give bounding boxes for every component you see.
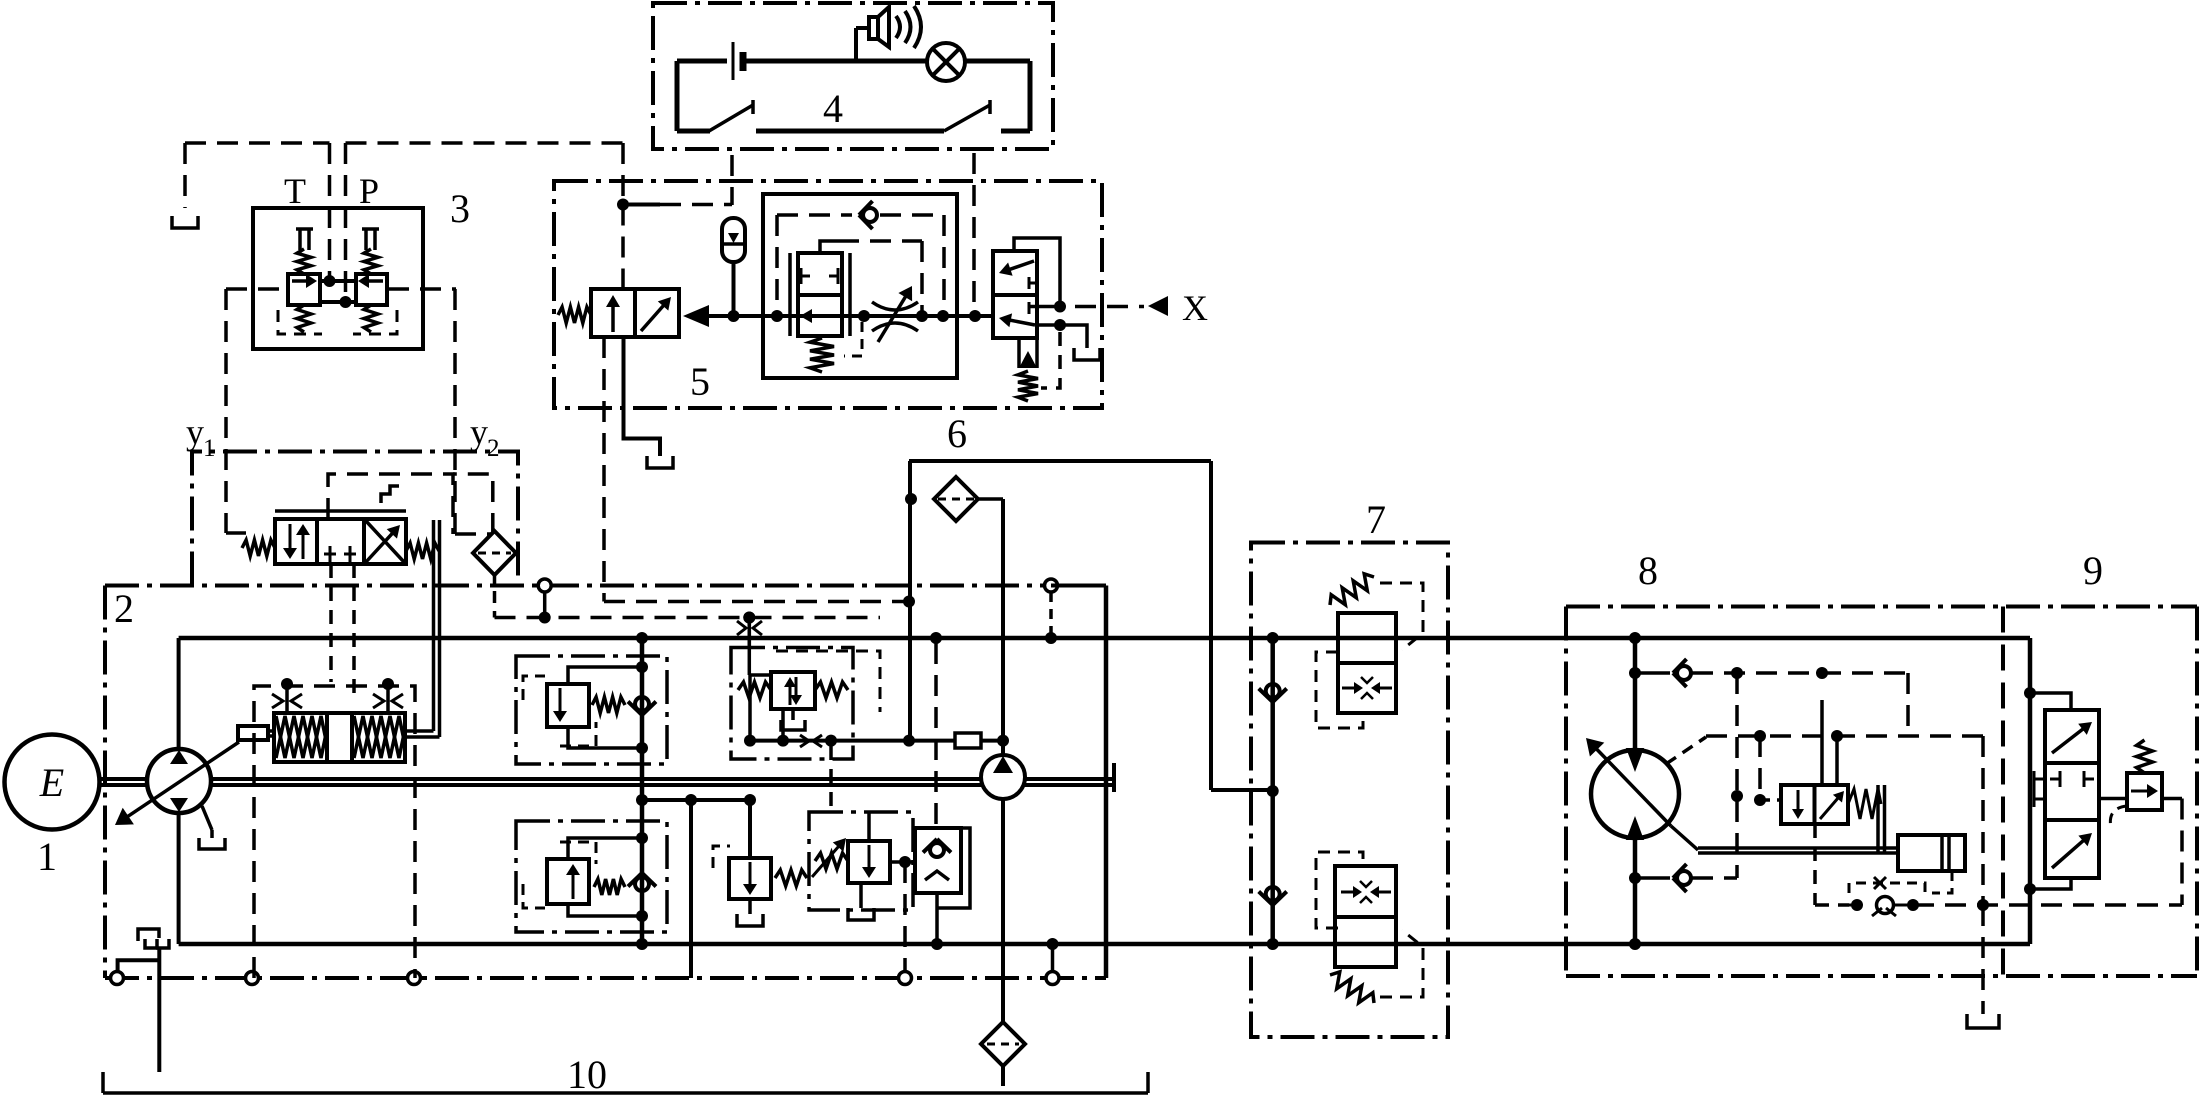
servo valve SV1 arrow L — [1797, 790, 1800, 811]
node n2 — [2024, 883, 2036, 895]
port circle p2 — [246, 972, 259, 985]
variable throttle 5d — [872, 302, 918, 310]
node n1 — [2024, 687, 2036, 699]
pump P1 variable arrow — [127, 742, 239, 817]
box 2 bottom border — [105, 976, 1106, 980]
lower pilot dashed line — [495, 616, 881, 620]
tank T1 — [172, 216, 198, 228]
pilot valve V1 spring R — [406, 543, 439, 559]
pilot lines from V1 down — [329, 564, 333, 682]
control valve V2 springs L — [276, 716, 326, 758]
control valve V2 piston — [238, 726, 268, 740]
check valve 5c — [863, 208, 877, 222]
P line — [344, 143, 348, 298]
node r5 — [636, 794, 648, 806]
pilot dashed drop9 — [2180, 799, 2184, 906]
battery B1 — [732, 42, 735, 80]
valve V9 body — [2045, 710, 2099, 878]
box 5 enclosure (dash-dot) — [554, 181, 1102, 408]
tank T5 — [647, 456, 673, 468]
svg-text:X: X — [1182, 288, 1208, 328]
node a4 — [916, 310, 928, 322]
node P — [340, 296, 352, 308]
servo valve SV1 arrow R — [1820, 797, 1839, 819]
drop x691 — [689, 800, 693, 978]
counterbalance CB1 dashed hook — [1316, 652, 1363, 728]
reducing valve 3R body — [356, 274, 387, 305]
dashed pilot rect 5 — [777, 213, 852, 217]
relief module RM1 enclosure — [516, 656, 667, 764]
tank drop — [1981, 905, 1985, 1014]
pilot dashed right — [1913, 903, 2182, 907]
y-rect top — [226, 287, 287, 291]
solenoid valve 5a spring — [558, 307, 591, 323]
valve V9 out — [2099, 797, 2127, 801]
port circle p4 — [899, 972, 912, 985]
port stub2 — [1049, 592, 1053, 633]
box 6 left line — [908, 461, 912, 741]
border solid piece — [1051, 584, 1106, 588]
svg-text:6: 6 — [947, 411, 967, 456]
check module link — [935, 893, 939, 944]
solenoid valve 5a arrow L — [611, 305, 615, 332]
reducing valve 3R pilot dashes — [353, 310, 397, 334]
box 6 right line — [1209, 461, 1213, 790]
pump P1 case drain — [202, 806, 212, 830]
trunk 9 — [2028, 638, 2033, 944]
relief valve RV3 spring — [775, 870, 807, 886]
svg-text:y: y — [470, 412, 488, 452]
RM2 top link — [568, 838, 642, 859]
check valve CV4 — [1266, 684, 1280, 698]
compensator drain — [791, 709, 795, 720]
pump P2 suction — [1001, 799, 1005, 1022]
pilot dashed vert1 — [1735, 673, 1739, 878]
node j1 — [617, 199, 629, 211]
compensator down link — [781, 709, 785, 741]
pilot valve V1 drain z — [381, 486, 399, 503]
node x1 — [1054, 301, 1066, 313]
node b3 — [1267, 938, 1279, 950]
svg-text:4: 4 — [823, 86, 843, 131]
accumulator stem — [732, 262, 736, 316]
link line y800 — [642, 798, 750, 802]
valve 5e pilot tri — [1017, 338, 1021, 368]
switch S2 — [944, 105, 990, 131]
tank T5e — [1074, 348, 1100, 360]
dashed net T branch — [185, 141, 330, 145]
node m1 — [1629, 632, 1641, 644]
compensator link in — [749, 673, 771, 677]
valve V9 arrow top — [2052, 728, 2084, 753]
drain of valve 5a to tank — [624, 337, 661, 456]
reducing valve 3R spring top — [364, 249, 378, 274]
throttle-check cluster — [1849, 883, 1925, 893]
node m7 — [1731, 790, 1743, 802]
node m2 — [1629, 667, 1641, 679]
node r3 — [636, 832, 648, 844]
y2 line — [453, 289, 457, 534]
compensator feed — [748, 618, 752, 648]
feedback lines — [432, 520, 436, 731]
pump P2 — [981, 755, 1025, 799]
solenoid valve 5a arrow R — [641, 305, 664, 332]
motor E circle — [5, 735, 100, 830]
relief valve RM1 arrow — [559, 688, 562, 713]
compensator spring R — [815, 682, 848, 698]
node u1 — [903, 596, 915, 608]
pilot valve V1 cap line — [275, 509, 406, 513]
pilot dashed bottom — [1692, 876, 1737, 880]
node T — [324, 275, 336, 287]
check valve CV2 — [635, 877, 649, 891]
horn/speaker H1 — [854, 28, 858, 61]
node m9 — [1831, 730, 1843, 742]
valve 5e arrow bottom — [1009, 320, 1035, 325]
pump P1 — [147, 749, 211, 813]
filter F3 — [981, 1022, 1025, 1066]
pilot drop to solenoid valve — [621, 205, 625, 290]
port circle p5 — [1046, 972, 1059, 985]
node r6 — [636, 938, 648, 950]
reducing valve 3R arrow — [367, 279, 383, 283]
node a2 — [771, 310, 783, 322]
node a3 — [858, 310, 870, 322]
node r1 — [636, 661, 648, 673]
counterbalance CB1 dashed box — [1380, 583, 1423, 650]
reducing valve 3L arrow — [292, 279, 308, 283]
svg-text:y: y — [186, 412, 204, 452]
pilot valve V1 body — [275, 519, 406, 564]
pilot drop1 — [1758, 736, 1762, 800]
relief valve RV3 body — [729, 858, 771, 899]
box8-9 divider — [2001, 607, 2005, 977]
feedback bar — [1876, 785, 1880, 852]
pilot dashed top — [1692, 671, 1908, 675]
T line — [328, 143, 332, 277]
pilot drop to valve 3a — [621, 143, 625, 203]
variable relief RV4 spring — [815, 853, 848, 869]
port circle p7 — [1045, 579, 1058, 592]
servo valve SV1 body — [1781, 785, 1848, 824]
pilot dashed mid — [1706, 734, 1983, 738]
node o1 — [997, 735, 1009, 747]
dashed net T left drop — [183, 143, 187, 208]
relief valve RM2 spring — [594, 879, 625, 895]
variable relief RV4 enclosure — [809, 812, 913, 910]
relief module RM2 enclosure — [516, 821, 667, 932]
pilot line from box4 right port — [972, 153, 976, 316]
pressure reducing valve 5b body — [798, 253, 842, 336]
pilot actuator right — [382, 678, 394, 690]
valve 5e drain — [1054, 319, 1066, 331]
filter F2 — [473, 531, 516, 575]
valve 5b spring — [810, 338, 834, 372]
relief RV9 dashes — [2110, 806, 2127, 828]
pilot link bottom — [2030, 878, 2071, 889]
svg-text:3: 3 — [450, 186, 470, 231]
compensator dashed box — [776, 651, 880, 712]
motor trunk — [1633, 638, 1638, 944]
node u3 — [743, 612, 755, 624]
check valve CV5 — [1266, 887, 1280, 901]
svg-text:2: 2 — [487, 435, 500, 462]
node m8 — [1754, 730, 1766, 742]
node v3 — [930, 632, 942, 644]
svg-text:1: 1 — [37, 834, 57, 879]
check valve CV6 — [1635, 671, 1670, 675]
variable relief RV4 stub — [867, 812, 871, 841]
variable relief RV4 body — [848, 841, 890, 883]
valve V9 mid marks — [2034, 778, 2045, 781]
RV3 feed — [748, 800, 752, 858]
wire bottom right — [1001, 129, 1030, 134]
node a1 — [728, 310, 740, 322]
relief valve RV3 arrow — [749, 862, 752, 886]
box 8 enclosure bottom — [1566, 974, 2197, 978]
counterbalance CB2 spring — [1330, 972, 1374, 1003]
wire bottom left — [677, 129, 710, 134]
variable relief RV4 link — [890, 860, 915, 864]
box 8 enclosure top — [1566, 605, 2197, 609]
box 4 enclosure (dash-dot) — [653, 3, 1053, 149]
node b1 — [1267, 632, 1279, 644]
check valve CV7 — [1635, 876, 1670, 880]
pilot valve V1 spring L — [242, 540, 275, 556]
compensator arrows — [789, 685, 792, 705]
valve 5e arrow top — [1009, 261, 1035, 270]
node c4 — [903, 735, 915, 747]
servo valve SV1 spring — [1848, 789, 1881, 819]
pilot link to box4 — [623, 203, 660, 207]
valve 5e body — [993, 251, 1037, 338]
wire vertical right — [1028, 61, 1033, 131]
node v2 — [931, 938, 943, 950]
box 8 enclosure left — [1564, 607, 1568, 977]
node c3 — [825, 735, 837, 747]
variable relief RV4 arrow — [868, 845, 871, 869]
valve V9 arrow bottom — [2052, 840, 2085, 868]
drive shaft — [99, 777, 1114, 781]
port drop dashed — [903, 862, 907, 971]
tank Z2 — [138, 929, 159, 941]
reducing valve 3L spring bottom — [297, 305, 311, 332]
relief valve RM2 dashes — [523, 884, 545, 908]
node m6 — [1816, 667, 1828, 679]
node r2 — [636, 742, 648, 754]
motor M1 variable arrow — [1596, 748, 1671, 826]
control valve V2 springs R — [354, 716, 404, 758]
port circle p6 — [538, 579, 551, 592]
servo cylinder — [1898, 835, 1965, 871]
svg-text:T: T — [284, 171, 306, 211]
wire vertical left — [675, 61, 680, 131]
node c1 — [744, 735, 756, 747]
throttle stem — [743, 612, 755, 624]
pilot link top — [2030, 693, 2071, 710]
control valve V2 body — [274, 713, 405, 762]
servo rod — [1698, 846, 1898, 850]
node a6 — [969, 310, 981, 322]
pilot actuator left — [281, 678, 293, 690]
tank T8 — [1967, 1014, 1999, 1028]
wire top left — [677, 59, 727, 64]
counterbalance CB2 throttle — [1341, 891, 1355, 894]
suction port link — [1047, 938, 1059, 950]
box 2 right border — [1104, 586, 1109, 979]
wire bottom middle — [756, 129, 944, 134]
wire lamp to right — [965, 59, 1030, 64]
svg-text:8: 8 — [1638, 548, 1658, 593]
bar between valves bottom — [320, 300, 356, 304]
relief RV9 body — [2127, 773, 2162, 810]
valve 5e pilot dashes — [1041, 332, 1060, 388]
pilot valve V1 arrows — [289, 524, 292, 550]
node b2 — [1267, 785, 1279, 797]
main pilot line 5 — [709, 314, 992, 318]
bottom bus line — [179, 942, 2030, 947]
node u2 — [539, 612, 551, 624]
node r4 — [636, 910, 648, 922]
relief valve RM1 spring — [592, 697, 625, 713]
box 7 enclosure — [1251, 543, 1448, 1038]
wire battery to speaker — [743, 59, 856, 64]
inner left edge — [177, 638, 181, 944]
dashed net P branch — [346, 141, 624, 145]
reducing valve 3R spring bottom — [364, 305, 378, 332]
wire speaker to lamp — [856, 59, 927, 64]
accumulator A1 — [722, 218, 745, 262]
y2 corner — [455, 532, 493, 536]
bracket 10 — [103, 1091, 1148, 1095]
relief RV9 arrow — [2131, 790, 2149, 793]
reducing valve 3L body — [288, 274, 320, 305]
pilot valve V1 mid marks — [329, 546, 332, 562]
swash link — [1666, 737, 1706, 764]
solenoid valve 5a body — [591, 289, 679, 337]
compensator throttle — [800, 735, 809, 747]
pilot valve V1 X — [366, 521, 404, 562]
relief valve RM1 body — [547, 684, 589, 727]
X pilot line — [1043, 305, 1144, 309]
RM1 top link — [568, 667, 642, 694]
check module CM2 outline — [915, 828, 961, 893]
node r7 — [685, 794, 697, 806]
check valve CV1 — [635, 697, 649, 711]
node c2 — [777, 735, 789, 747]
upper pilot dashed line — [604, 600, 909, 604]
X cone — [1148, 296, 1168, 316]
valve block 3 outline — [253, 208, 423, 349]
orifice plug — [911, 739, 955, 743]
valve 5b arrow — [810, 314, 838, 318]
valve 5e spring — [1018, 371, 1038, 401]
drain from valve 5a — [602, 337, 606, 602]
pilot dashed vert2 — [1906, 673, 1910, 736]
RV4 pilot dash — [829, 746, 833, 812]
motor M1 — [1591, 750, 1679, 838]
node r0 — [636, 632, 648, 644]
filter F2 stem — [493, 575, 497, 585]
node m5 — [1731, 667, 1743, 679]
counterbalance CB1 body — [1338, 613, 1396, 713]
box 9 enclosure right — [2195, 607, 2199, 977]
counterbalance CB2 dashed box — [1380, 930, 1423, 997]
port stub — [543, 592, 547, 612]
reducing valve 3L solenoid — [296, 227, 313, 231]
filter F1 — [934, 477, 978, 521]
svg-text:E: E — [39, 760, 64, 805]
port circle p1 — [111, 972, 124, 985]
check valve CV3 — [930, 843, 944, 857]
reducing valve 3L spring top — [297, 249, 311, 274]
pilot cone — [683, 305, 709, 327]
relief RV9 spring — [2137, 740, 2153, 773]
compensator body — [771, 672, 815, 709]
svg-text:10: 10 — [567, 1052, 607, 1096]
port circle p3 — [408, 972, 421, 985]
filter path — [453, 474, 493, 534]
compensator CM1 enclosure — [731, 648, 853, 760]
box 2 top border — [105, 584, 1106, 588]
RM2 bottom link — [568, 904, 642, 916]
pilot drop2 — [1820, 700, 1824, 785]
node m4 — [1629, 938, 1641, 950]
counterbalance CB1 throttle — [1342, 687, 1356, 690]
relief valve RM2 arrow — [572, 873, 575, 899]
reducing valve 3R solenoid — [362, 227, 379, 231]
valve 5b pilot loop — [820, 241, 838, 253]
svg-text:5: 5 — [690, 359, 710, 404]
box 6 top line — [909, 459, 1211, 463]
counterbalance CB1 spring — [1330, 574, 1374, 605]
svg-text:2: 2 — [114, 586, 134, 631]
node f1 — [905, 493, 917, 505]
counterbalance CB2 body — [1335, 866, 1396, 967]
relief valve RM2 body — [547, 859, 589, 904]
counterbalance CB2 dashed hook — [1316, 852, 1363, 928]
reducing valve 3L pilot dashes — [278, 310, 322, 334]
check line — [1270, 638, 1275, 944]
svg-text:1: 1 — [203, 435, 216, 462]
pilot drop dashed x936 — [934, 643, 938, 828]
y1 corner — [226, 531, 246, 535]
node m10 — [1977, 899, 1989, 911]
relief valve RM1 dashes — [523, 676, 545, 700]
svg-text:P: P — [359, 171, 379, 211]
link from box6 — [1211, 788, 1273, 792]
reducing block outline — [763, 194, 957, 378]
switch S1 — [709, 105, 753, 131]
node a5 — [937, 310, 949, 322]
top bus line — [179, 636, 2030, 641]
shaft end cap — [1112, 763, 1116, 792]
node m3 — [1629, 872, 1641, 884]
filter F1 link — [978, 497, 1003, 501]
pilot dashed vert3 — [1981, 736, 1985, 905]
variable relief RV4 drain — [859, 883, 863, 908]
bar between valves top — [320, 279, 356, 283]
dashed box around V2 — [254, 686, 415, 978]
filter F3 tail — [1001, 1066, 1005, 1086]
pilot down from valve — [1813, 824, 1817, 905]
pilot line from box4 left port — [730, 155, 734, 205]
orifice bus line — [750, 739, 909, 743]
relief valve RV3 dashes — [713, 846, 730, 868]
svg-text:7: 7 — [1366, 497, 1386, 542]
box 2 top extension — [192, 452, 518, 586]
compensator spring L — [738, 682, 771, 698]
